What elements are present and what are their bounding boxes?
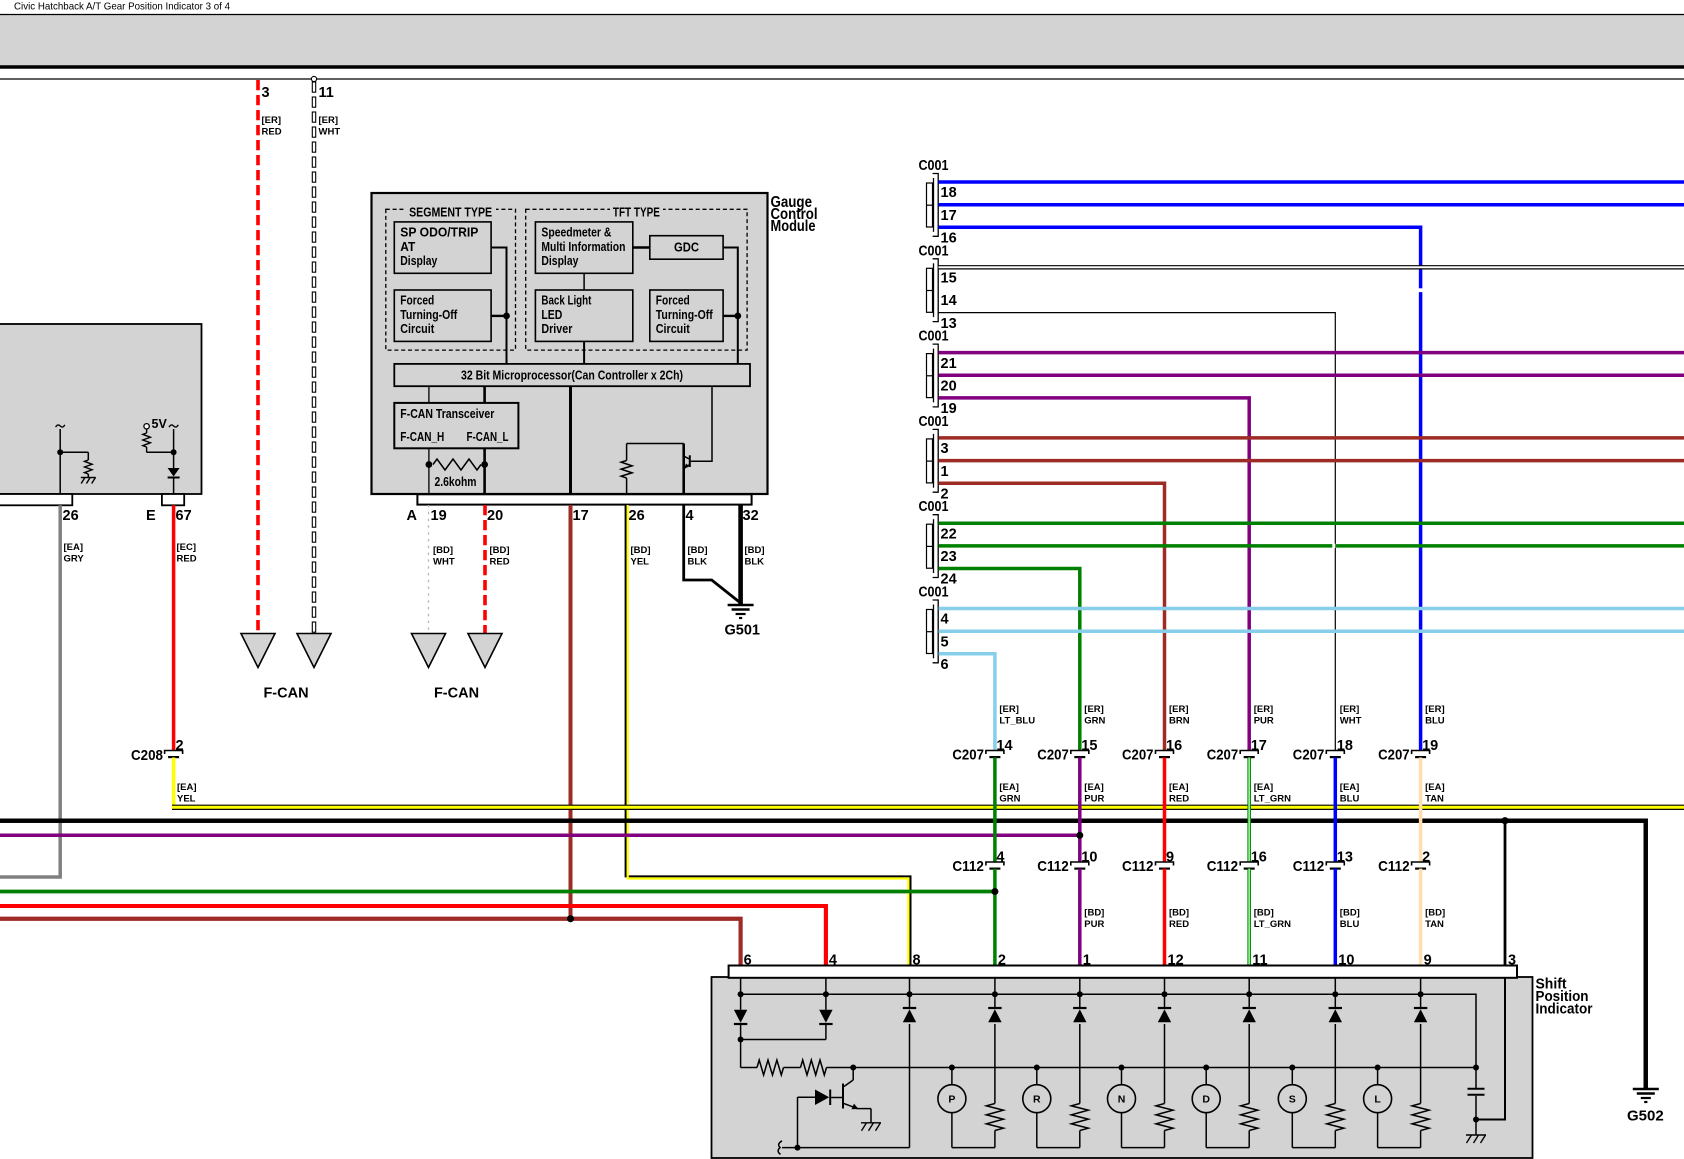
svg-text:F-CAN Transceiver: F-CAN Transceiver	[400, 407, 494, 421]
svg-text:[EA]: [EA]	[1254, 782, 1274, 793]
wire [EA] PUR	[1078, 758, 1082, 863]
connector C207 pin 15	[1071, 751, 1089, 755]
wire C001 pin 3	[939, 436, 1684, 440]
wire C001 pin 18	[939, 180, 1684, 184]
svg-text:C207: C207	[1037, 747, 1069, 764]
svg-text:17: 17	[1251, 738, 1267, 754]
svg-text:[EA]: [EA]	[64, 542, 84, 553]
svg-text:YEL: YEL	[631, 557, 650, 568]
svg-text:Multi Information: Multi Information	[541, 240, 625, 254]
svg-text:[BD]: [BD]	[745, 545, 765, 556]
svg-text:[BD]: [BD]	[1084, 908, 1104, 919]
resistor 2.6kohm	[433, 459, 481, 470]
svg-text:WHT: WHT	[319, 127, 341, 138]
wire below C112 col 4	[1247, 869, 1251, 966]
Back Light LED Driver block	[535, 290, 632, 341]
svg-text:Display: Display	[400, 254, 437, 268]
TFT TYPE dashed box	[526, 209, 747, 350]
svg-text:C112: C112	[1037, 858, 1069, 875]
Gauge Control Module box	[372, 193, 768, 494]
wire pin 6 into box	[740, 978, 742, 995]
svg-text:Driver: Driver	[541, 322, 572, 336]
svg-text:C001: C001	[919, 414, 949, 430]
transistor Q (module)	[682, 444, 685, 506]
horizontal rail	[0, 78, 1684, 80]
svg-text:19: 19	[431, 508, 447, 524]
svg-text:AT: AT	[400, 240, 415, 254]
wire diode 6/4 join	[825, 1024, 827, 1040]
svg-text:26: 26	[629, 508, 645, 524]
lamp S cell	[1334, 1024, 1336, 1104]
svg-text:[EC]: [EC]	[177, 542, 197, 553]
SPI connector bar	[729, 966, 1517, 978]
wire gap artifacts	[1418, 288, 1423, 292]
wires segment-type to microprocessor	[491, 248, 506, 364]
svg-text:D: D	[1202, 1094, 1210, 1106]
svg-text:11: 11	[319, 85, 334, 101]
svg-text:11: 11	[1252, 953, 1267, 969]
wire [BD] RED dashed pin 20	[483, 505, 487, 634]
wire backlight to microprocessor	[583, 341, 585, 364]
svg-text:F-CAN_H: F-CAN_H	[400, 430, 444, 444]
svg-text:6: 6	[941, 657, 949, 673]
bus wire yellow (over)	[172, 805, 1684, 810]
svg-text:Back Light: Back Light	[541, 294, 592, 308]
svg-text:GRN: GRN	[1084, 716, 1105, 727]
svg-text:C207: C207	[1207, 747, 1239, 764]
svg-text:Forced: Forced	[656, 294, 690, 308]
F-CAN arrow pin 19	[412, 634, 446, 668]
continuation hook pin67 branch	[169, 425, 178, 427]
wire pin 2 into box	[994, 978, 996, 995]
wire pin 9 into box	[1420, 978, 1422, 995]
SPI internal top bus	[741, 994, 1476, 1067]
lamp R cell	[1079, 1024, 1081, 1104]
diode pin 9 (up)	[1420, 994, 1422, 1007]
svg-text:GRY: GRY	[64, 554, 85, 565]
svg-text:BLU: BLU	[1340, 794, 1360, 805]
connector C112 pin 13	[1326, 862, 1344, 866]
svg-text:LT_GRN: LT_GRN	[1254, 794, 1291, 805]
svg-text:C112: C112	[1293, 858, 1325, 875]
svg-text:9: 9	[1166, 850, 1174, 866]
svg-text:[BD]: [BD]	[688, 545, 708, 556]
svg-text:P: P	[948, 1094, 955, 1106]
svg-text:16: 16	[1251, 850, 1267, 866]
svg-text:C112: C112	[1207, 858, 1239, 875]
wire C001 pin 24	[939, 569, 1080, 751]
svg-text:SEGMENT TYPE: SEGMENT TYPE	[409, 206, 492, 220]
wire C001 pin 22	[939, 521, 1684, 525]
wire below C112 col 6	[1419, 869, 1423, 966]
wire C001 pin 15 white	[939, 265, 1684, 269]
svg-text:BLU: BLU	[1340, 919, 1360, 930]
svg-text:C001: C001	[919, 243, 949, 259]
svg-text:8: 8	[913, 953, 921, 969]
wire C001 pin 20	[939, 374, 1684, 378]
wire [EA] RED	[1163, 758, 1167, 863]
svg-text:1: 1	[941, 464, 949, 480]
wire [EC] RED	[172, 505, 176, 750]
SPI internal mid bus	[853, 1067, 1476, 1069]
svg-text:14: 14	[996, 738, 1012, 754]
diode pin 4 (down)	[825, 994, 827, 1010]
svg-text:Circuit: Circuit	[400, 322, 435, 336]
wire	[147, 451, 174, 453]
wire below C112 col 1	[993, 869, 997, 966]
wire base to pin 8 line	[797, 1097, 799, 1147]
svg-text:LED: LED	[541, 308, 562, 322]
wire C001 pin 6	[939, 654, 995, 751]
resistor (left box)	[85, 460, 93, 474]
5V supply circle	[144, 424, 149, 429]
svg-text:RED: RED	[177, 554, 197, 565]
svg-text:F-CAN_L: F-CAN_L	[467, 430, 509, 444]
svg-text:C207: C207	[1122, 747, 1154, 764]
svg-text:[ER]: [ER]	[999, 704, 1019, 715]
svg-text:G502: G502	[1627, 1108, 1664, 1125]
wire micro to F-CAN_H	[428, 386, 430, 403]
svg-text:18: 18	[941, 185, 957, 201]
lamp N cell	[1164, 1024, 1166, 1104]
wire pin 8 leg	[909, 1024, 911, 1148]
wire [BD] YEL pin 26 to SPI pin 8	[626, 505, 911, 966]
capacitor C (SPI)	[1475, 1068, 1477, 1089]
svg-text:C112: C112	[952, 858, 984, 875]
wire pin 3 to capacitor	[1476, 978, 1505, 1120]
F-CAN arrow wire3	[241, 634, 275, 668]
wire C001 pin 1	[939, 459, 1684, 463]
wire top of transistor leg	[627, 443, 684, 445]
svg-text:1: 1	[1083, 953, 1091, 969]
wire C001 pin 2	[939, 483, 1165, 750]
svg-text:C207: C207	[952, 747, 984, 764]
svg-text:32 Bit Microprocessor(Can Cont: 32 Bit Microprocessor(Can Controller x 2…	[461, 369, 683, 383]
bus wire brown to SPI pin 6	[0, 919, 741, 966]
svg-text:[ER]: [ER]	[262, 115, 282, 126]
svg-text:Turning-Off: Turning-Off	[656, 308, 714, 322]
wire C001 pin 17	[939, 203, 1684, 207]
connector C207 pin 14	[986, 751, 1004, 755]
svg-text:[BD]: [BD]	[1425, 908, 1445, 919]
svg-text:[BD]: [BD]	[1169, 908, 1189, 919]
svg-text:G501: G501	[725, 623, 760, 639]
F-CAN arrow wire11	[297, 634, 331, 668]
svg-text:YEL: YEL	[177, 794, 196, 805]
svg-text:[ER]: [ER]	[1340, 704, 1360, 715]
node purple bus	[1076, 832, 1083, 839]
svg-text:2: 2	[176, 738, 184, 754]
bus wire purple	[0, 834, 1080, 838]
wire [EA] TAN	[1419, 758, 1423, 863]
svg-text:PUR: PUR	[1084, 919, 1104, 930]
svg-text:RED: RED	[1169, 794, 1189, 805]
wire C001 pin 21	[939, 351, 1684, 355]
svg-text:SP ODO/TRIP: SP ODO/TRIP	[400, 226, 478, 240]
svg-text:18: 18	[1337, 738, 1353, 754]
wire C001 pin 13 white	[939, 313, 1336, 751]
wire [EA] GRN	[993, 758, 997, 863]
bus wire green (over)	[0, 890, 995, 894]
svg-text:3: 3	[1508, 953, 1516, 969]
wire C001 pin 4	[939, 607, 1684, 611]
wire pin 10 into box	[1334, 978, 1336, 995]
svg-text:WHT: WHT	[1340, 716, 1362, 727]
wire [ER] RED dashed from pin 3	[256, 80, 260, 634]
svg-text:C001: C001	[919, 329, 949, 345]
bus wire red to SPI pin 4	[0, 906, 826, 966]
32 Bit Microprocessor bar	[394, 364, 750, 386]
wire C001 pin 19	[939, 398, 1250, 751]
wire micro to F-CAN_L	[483, 386, 486, 403]
connector C112 pin 9	[1156, 862, 1174, 866]
bus wire purple (over)	[0, 834, 1080, 838]
diode pin 1 (up)	[1079, 994, 1081, 1007]
svg-text:67: 67	[176, 508, 192, 524]
svg-text:Speedmeter &: Speedmeter &	[541, 226, 611, 240]
svg-text:[ER]: [ER]	[1169, 704, 1189, 715]
wire	[60, 451, 88, 453]
connector C112 pin 2	[1412, 862, 1430, 866]
wire speedmeter-GDC	[633, 246, 650, 249]
wire micro to pin 17	[569, 386, 572, 505]
svg-text:Module: Module	[771, 218, 816, 235]
svg-text:BLK: BLK	[688, 557, 708, 568]
svg-text:WHT: WHT	[433, 557, 455, 568]
svg-text:Indicator: Indicator	[1536, 1002, 1593, 1018]
resistor 5V	[146, 429, 148, 433]
svg-text:[EA]: [EA]	[177, 782, 197, 793]
svg-text:4: 4	[996, 850, 1004, 866]
left module box (cut off at left edge)	[0, 324, 202, 494]
svg-text:[BD]: [BD]	[1340, 908, 1360, 919]
svg-text:[BD]: [BD]	[631, 545, 651, 556]
svg-text:TFT TYPE: TFT TYPE	[613, 206, 660, 220]
svg-text:Circuit: Circuit	[656, 322, 691, 336]
svg-text:L: L	[1374, 1094, 1381, 1106]
svg-text:PUR: PUR	[1254, 716, 1274, 727]
wire C001 pin 16	[939, 227, 1421, 750]
svg-text:RED: RED	[262, 127, 282, 138]
svg-text:[BD]: [BD]	[433, 545, 453, 556]
svg-text:C207: C207	[1378, 747, 1410, 764]
connector C207 pin 17	[1240, 751, 1258, 755]
transistor Q (SPI)	[852, 1068, 854, 1081]
lamp L cell	[1420, 1024, 1422, 1104]
svg-text:4: 4	[686, 508, 694, 524]
ground (SPI transistor)	[861, 1122, 881, 1124]
svg-text:PUR: PUR	[1084, 794, 1104, 805]
resistor in pin26 leg	[626, 444, 628, 461]
connector C112 pin 4	[986, 862, 1004, 866]
svg-text:2: 2	[1422, 850, 1430, 866]
Speedmeter & Multi Information Display block	[535, 222, 632, 273]
svg-text:17: 17	[573, 508, 589, 524]
SP ODO/TRIP AT Display block	[394, 222, 491, 273]
svg-text:TAN: TAN	[1425, 919, 1444, 930]
svg-text:10: 10	[1338, 953, 1354, 969]
svg-text:22: 22	[941, 526, 957, 542]
svg-text:[ER]: [ER]	[319, 115, 339, 126]
svg-text:[ER]: [ER]	[1425, 704, 1445, 715]
svg-text:C001: C001	[919, 585, 949, 601]
node	[171, 449, 177, 455]
svg-text:14: 14	[941, 293, 957, 309]
svg-text:E: E	[146, 508, 156, 524]
svg-text:5V: 5V	[152, 417, 168, 431]
svg-text:12: 12	[1168, 953, 1184, 969]
svg-text:LT_GRN: LT_GRN	[1254, 919, 1291, 930]
connector E pin 67	[162, 494, 184, 505]
node black bus	[1501, 817, 1508, 824]
F-CAN Transceiver block	[394, 403, 518, 448]
node	[57, 449, 63, 455]
wire F-CAN_H to pin 19	[428, 448, 430, 505]
wire below C112 col 5	[1334, 869, 1338, 966]
ground (left box)	[81, 477, 96, 479]
connector C207 pin 16	[1156, 751, 1174, 755]
Forced Turning-Off Circuit block (left)	[394, 290, 491, 341]
svg-text:N: N	[1118, 1094, 1126, 1106]
svg-text:Forced: Forced	[400, 294, 434, 308]
svg-text:4: 4	[829, 953, 837, 969]
SEGMENT TYPE dashed box	[386, 209, 516, 350]
wire [ER] WHT dashed from pin 11	[312, 82, 315, 92]
wire [EA] YEL	[172, 758, 176, 809]
Shift Position Indicator box	[712, 977, 1533, 1158]
svg-text:BRN: BRN	[1169, 716, 1190, 727]
diode pin 6 (down)	[740, 994, 742, 1010]
Forced Turning-Off Circuit block (right)	[650, 290, 723, 341]
connector C208 pin 2	[165, 751, 183, 755]
resistor R-a	[741, 1067, 757, 1069]
svg-text:2: 2	[998, 953, 1006, 969]
svg-text:RED: RED	[490, 557, 510, 568]
svg-text:C207: C207	[1293, 747, 1325, 764]
diode at base	[831, 1097, 843, 1099]
bus wire red (over)	[0, 906, 826, 966]
bus wire thick black to G502	[0, 821, 1646, 1088]
diode pin 2 (up)	[994, 994, 996, 1007]
wire [EA] LT_GRN	[1247, 758, 1251, 863]
wire below C112 col 2	[1078, 869, 1082, 966]
header band	[0, 15, 1684, 66]
node circle at top of wire 11	[311, 76, 316, 81]
svg-text:3: 3	[262, 85, 270, 101]
svg-text:6: 6	[744, 953, 752, 969]
node green bus	[991, 888, 998, 895]
svg-text:LT_BLU: LT_BLU	[999, 716, 1035, 727]
svg-text:4: 4	[941, 612, 949, 628]
wire pin 11 into box	[1248, 978, 1250, 995]
svg-text:BLK: BLK	[745, 557, 765, 568]
svg-text:F-CAN: F-CAN	[263, 686, 308, 702]
svg-text:[ER]: [ER]	[1084, 704, 1104, 715]
svg-text:[EA]: [EA]	[999, 782, 1019, 793]
wire C001 pin 23	[939, 544, 1684, 548]
svg-text:17: 17	[941, 208, 957, 224]
wire pin 12 into box	[1164, 978, 1166, 995]
svg-text:C112: C112	[1122, 858, 1154, 875]
wire C001 pin 5	[939, 629, 1684, 633]
svg-text:[BD]: [BD]	[1254, 908, 1274, 919]
svg-text:2.6kohm: 2.6kohm	[435, 475, 477, 489]
continuation hook (SPI)	[778, 1141, 782, 1155]
svg-text:[EA]: [EA]	[1425, 782, 1445, 793]
svg-text:[EA]: [EA]	[1340, 782, 1360, 793]
diode pin 11 (up)	[1248, 994, 1250, 1007]
svg-text:16: 16	[1166, 738, 1182, 754]
svg-text:BLU: BLU	[1425, 716, 1445, 727]
wire pin 1 into box	[1079, 978, 1081, 995]
module bottom connector	[417, 494, 751, 504]
bus wire black (over)	[0, 821, 1646, 1088]
connector C112 pin 16	[1240, 862, 1258, 866]
svg-text:26: 26	[63, 508, 79, 524]
svg-text:32: 32	[743, 508, 759, 524]
bus wire brown (over)	[0, 919, 741, 966]
continuation hook pin26 branch	[56, 425, 65, 427]
svg-text:Display: Display	[541, 254, 578, 268]
diode pin 8 (up)	[909, 994, 911, 1007]
svg-text:10: 10	[1081, 850, 1097, 866]
svg-text:C001: C001	[919, 499, 949, 515]
wire pin 8 into box	[909, 978, 911, 995]
lamp P cell	[994, 1024, 996, 1104]
wire below C112 col 3	[1163, 869, 1167, 966]
wire	[59, 429, 61, 494]
svg-text:TAN: TAN	[1425, 794, 1444, 805]
svg-text:[BD]: [BD]	[490, 545, 510, 556]
connector C207 pin 19	[1412, 751, 1430, 755]
wire pin 4 into box	[825, 978, 827, 995]
wires tft-type to microprocessor	[723, 248, 738, 364]
svg-text:RED: RED	[1169, 919, 1189, 930]
wire pin 17 brown	[569, 505, 573, 919]
diode pin 12 (up)	[1164, 994, 1166, 1007]
wire F-CAN_L to pin 20	[483, 448, 486, 505]
wire SPI pin 3	[1504, 821, 1507, 966]
svg-text:20: 20	[941, 379, 957, 395]
svg-text:S: S	[1289, 1094, 1296, 1106]
svg-text:9: 9	[1424, 953, 1432, 969]
wire [BD] BLK pin 4	[684, 505, 741, 603]
svg-text:5: 5	[941, 634, 949, 650]
svg-text:A: A	[407, 508, 418, 524]
bus wire green	[0, 890, 995, 894]
svg-text:Civic Hatchback A/T Gear Posit: Civic Hatchback A/T Gear Position Indica…	[14, 1, 230, 13]
lamp D cell	[1248, 1024, 1250, 1104]
svg-text:GDC: GDC	[674, 241, 699, 255]
svg-text:GRN: GRN	[999, 794, 1020, 805]
diode pin 10 (up)	[1334, 994, 1336, 1007]
ground G501	[728, 604, 754, 607]
svg-text:C208: C208	[131, 747, 163, 764]
svg-text:C112: C112	[1378, 858, 1410, 875]
svg-text:[EA]: [EA]	[1084, 782, 1104, 793]
svg-text:R: R	[1033, 1094, 1041, 1106]
F-CAN arrow pin 20	[468, 634, 502, 668]
svg-text:13: 13	[1337, 850, 1353, 866]
svg-text:3: 3	[941, 441, 949, 457]
svg-text:[EA]: [EA]	[1169, 782, 1189, 793]
ground (SPI capacitor)	[1466, 1134, 1486, 1136]
wire [EA] GRY	[0, 505, 60, 877]
svg-text:Turning-Off: Turning-Off	[400, 308, 458, 322]
svg-text:20: 20	[487, 508, 503, 524]
connector C207 pin 18	[1326, 751, 1344, 755]
connector C112 pin 10	[1071, 862, 1089, 866]
